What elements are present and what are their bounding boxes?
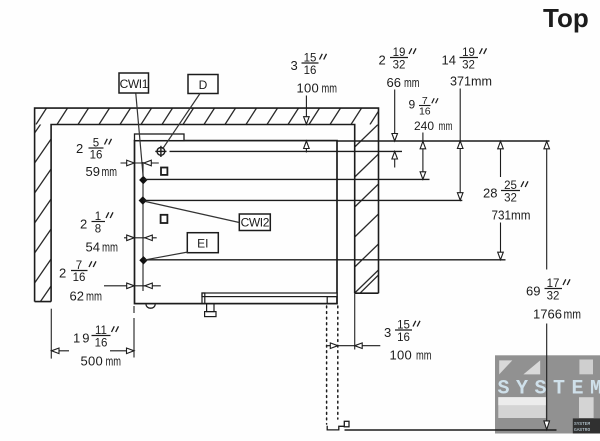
svg-text:32: 32 <box>547 291 560 303</box>
dimension 100mm bottom arrows <box>327 343 380 349</box>
svg-text:2: 2 <box>379 53 386 68</box>
svg-text:100: 100 <box>390 348 413 363</box>
svg-text:32: 32 <box>504 193 517 205</box>
wall top hatching <box>36 108 381 124</box>
dimension 731mm text <box>483 180 531 223</box>
dimension 54mm arrows <box>124 235 157 241</box>
svg-text:mm: mm <box>102 240 118 255</box>
wall left hatching <box>35 109 52 310</box>
watermark box <box>495 355 600 433</box>
front panel right block <box>327 297 337 304</box>
svg-text:3: 3 <box>384 325 391 340</box>
label box CWI2 <box>239 214 270 231</box>
square S1 <box>161 168 167 175</box>
D symbol (circle-cross) <box>155 146 166 157</box>
label box D <box>188 75 218 94</box>
svg-text:1766: 1766 <box>533 307 562 322</box>
svg-text:32: 32 <box>393 60 406 72</box>
wall outline <box>35 108 379 302</box>
dimension 371mm text <box>442 47 493 89</box>
leader D <box>163 94 201 150</box>
svg-text:54: 54 <box>86 240 100 255</box>
node CWI1 (dot) <box>139 176 147 184</box>
dimension 62mm arrows <box>104 283 161 289</box>
appliance foot <box>205 304 216 317</box>
svg-text:731mm: 731mm <box>492 208 531 223</box>
svg-text:9: 9 <box>409 98 416 112</box>
appliance caster arc <box>146 304 155 308</box>
svg-text:14: 14 <box>442 53 456 68</box>
svg-text:mm: mm <box>439 119 453 133</box>
svg-text:mm: mm <box>322 81 338 96</box>
svg-text:100: 100 <box>297 81 320 96</box>
dimension 500mm text <box>73 325 121 369</box>
svg-text:16: 16 <box>90 150 103 162</box>
svg-text:16: 16 <box>73 272 86 284</box>
svg-text:Top: Top <box>543 3 589 33</box>
leader CWI2 <box>146 202 240 223</box>
svg-text:D: D <box>199 78 208 92</box>
svg-text:371mm: 371mm <box>450 74 492 89</box>
connection line from node CWI1 <box>143 178 429 180</box>
bracket detail at bottom <box>327 426 344 430</box>
svg-text:GASTRO: GASTRO <box>574 427 591 433</box>
svg-text:mm: mm <box>86 289 102 304</box>
dimension 731mm arrows <box>498 141 504 259</box>
dimension 500mm arrows <box>52 348 135 354</box>
svg-text:28: 28 <box>483 186 497 201</box>
bottom reference line <box>345 429 557 431</box>
dimension 62mm text <box>59 260 102 304</box>
square S2 <box>161 215 168 223</box>
label box EI <box>187 233 218 253</box>
dimension 59mm text <box>76 138 117 180</box>
dotted projection line left <box>326 306 328 424</box>
svg-text:2: 2 <box>76 141 83 156</box>
leader CWI1 <box>136 94 143 178</box>
dimension 371mm arrows <box>457 89 463 201</box>
svg-text:19: 19 <box>73 331 91 346</box>
svg-text:2: 2 <box>80 217 87 232</box>
dimension 100mm bottom extension line <box>354 293 356 349</box>
svg-text:16: 16 <box>304 65 317 77</box>
connection vertical line <box>142 162 144 291</box>
dimension 100mm top text <box>291 53 338 96</box>
connection line from node EI <box>144 259 506 261</box>
svg-text:CWI2: CWI2 <box>241 216 270 230</box>
svg-text:SYSTEM: SYSTEM <box>574 421 591 427</box>
svg-text:mm: mm <box>416 348 432 363</box>
svg-text:66: 66 <box>387 75 401 90</box>
dimension 66mm text <box>379 47 420 90</box>
svg-text:EI: EI <box>197 237 208 251</box>
svg-text:mm: mm <box>564 307 582 322</box>
svg-text:CWI1: CWI1 <box>120 77 149 91</box>
svg-text:240: 240 <box>414 119 434 133</box>
dimension 66mm arrows <box>392 90 398 168</box>
front panel bar <box>202 293 337 297</box>
leader EI <box>146 252 189 260</box>
appliance outline <box>135 141 338 304</box>
dotted projection line right <box>337 306 339 419</box>
bracket knob <box>344 421 349 427</box>
dimension 100mm top arrows <box>304 96 310 153</box>
svg-text:16: 16 <box>95 338 108 350</box>
dimension 100mm bottom text <box>384 320 432 363</box>
svg-text:mm: mm <box>102 164 118 179</box>
connection line from D symbol <box>170 150 403 152</box>
svg-text:8: 8 <box>95 224 101 236</box>
svg-text:SYSTEM: SYSTEM <box>498 378 600 401</box>
dimension 500mm extension lines <box>51 306 134 359</box>
dimension 1766mm arrows <box>544 141 550 429</box>
svg-text:59: 59 <box>86 164 100 179</box>
main reference line <box>337 140 550 142</box>
svg-text:16: 16 <box>419 105 431 117</box>
svg-text:3: 3 <box>291 58 298 73</box>
dimension 240mm arrows <box>420 133 426 180</box>
svg-text:16: 16 <box>397 332 410 344</box>
dimension 59mm arrows <box>121 160 159 166</box>
front panel left block <box>202 293 205 304</box>
node EI (dot) <box>139 256 147 264</box>
dimension 1766mm text <box>526 278 581 322</box>
appliance top tab <box>135 134 185 141</box>
svg-text:mm: mm <box>404 75 420 90</box>
svg-text:2: 2 <box>59 266 66 281</box>
wall right hatching <box>355 124 379 293</box>
node CWI2 (dot) <box>139 196 147 204</box>
svg-text:62: 62 <box>70 289 84 304</box>
connection line from node CWI2 <box>143 199 462 201</box>
svg-text:69: 69 <box>526 284 540 299</box>
svg-text:32: 32 <box>462 60 475 72</box>
svg-text:mm: mm <box>106 354 122 369</box>
svg-text:500: 500 <box>81 354 104 369</box>
dimension 240mm text <box>409 95 453 133</box>
dimension 54mm text <box>80 211 118 255</box>
label box CWI1 <box>119 73 149 93</box>
